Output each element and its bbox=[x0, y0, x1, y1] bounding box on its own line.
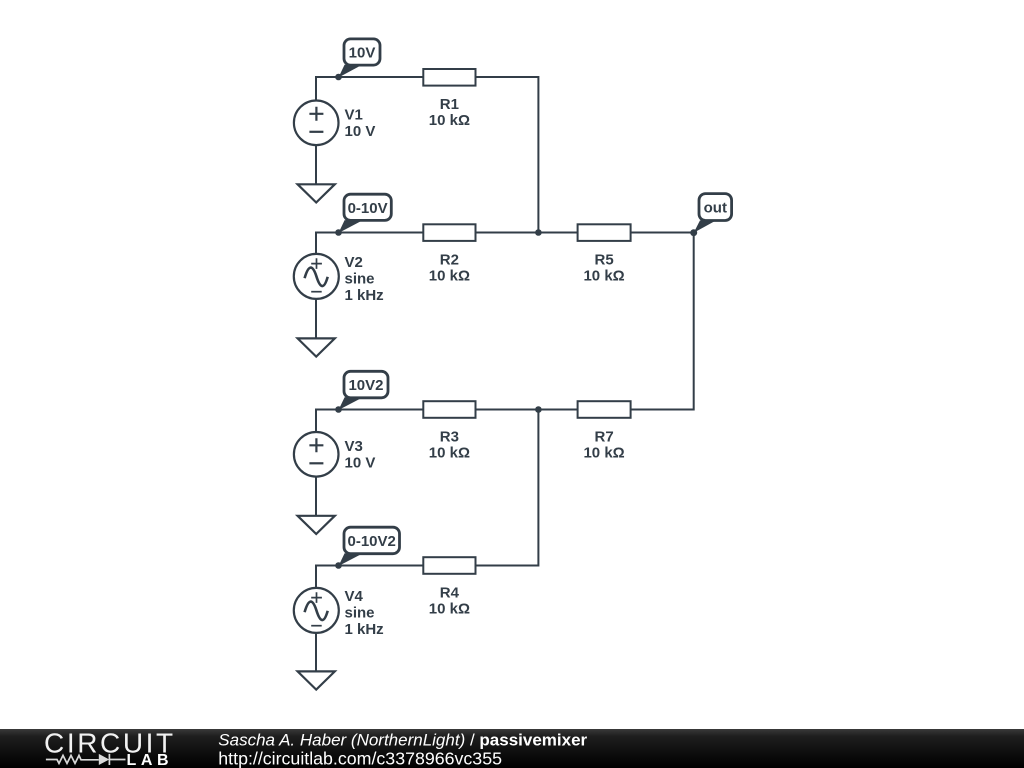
svg-text:0-10V2: 0-10V2 bbox=[348, 533, 396, 550]
voltage source V4 (sine) bbox=[294, 588, 384, 638]
node label 0-10V bbox=[339, 194, 392, 233]
svg-text:sine: sine bbox=[345, 605, 375, 622]
svg-text:10V: 10V bbox=[349, 45, 376, 62]
junction dot row2 bbox=[535, 229, 542, 236]
resistor R1 bbox=[423, 69, 475, 129]
ground below V2 bbox=[298, 299, 335, 357]
svg-text:10 kΩ: 10 kΩ bbox=[429, 601, 470, 618]
svg-text:V1: V1 bbox=[345, 106, 363, 123]
node dot 10V2 bbox=[335, 406, 342, 413]
wire R1 to node at row2 bbox=[476, 77, 539, 233]
svg-text:R3: R3 bbox=[440, 429, 459, 446]
svg-text:Sascha A. Haber (NorthernLight: Sascha A. Haber (NorthernLight) / passiv… bbox=[218, 730, 587, 749]
svg-text:10 kΩ: 10 kΩ bbox=[583, 268, 624, 285]
svg-text:10V2: 10V2 bbox=[348, 377, 383, 394]
svg-text:LAB: LAB bbox=[127, 752, 174, 768]
svg-text:10 kΩ: 10 kΩ bbox=[583, 445, 624, 462]
node dot 0-10V bbox=[335, 229, 342, 236]
svg-text:10 V: 10 V bbox=[345, 123, 376, 140]
svg-text:10 kΩ: 10 kΩ bbox=[429, 268, 470, 285]
svg-text:R2: R2 bbox=[440, 252, 459, 269]
node label 10V bbox=[339, 39, 381, 78]
wire V2 to R2 bbox=[316, 233, 423, 255]
node 10V junction dot bbox=[335, 74, 342, 81]
svg-text:sine: sine bbox=[345, 271, 375, 288]
voltage source V2 (sine) bbox=[294, 254, 384, 304]
svg-text:10 V: 10 V bbox=[345, 455, 376, 472]
footer bar bbox=[0, 729, 1024, 768]
out node dot bbox=[690, 229, 697, 236]
ground below V3 bbox=[298, 477, 335, 534]
node label 10V2 bbox=[339, 371, 389, 410]
voltage source V1 bbox=[294, 101, 375, 146]
svg-text:R4: R4 bbox=[440, 585, 460, 602]
svg-text:V4: V4 bbox=[345, 588, 364, 605]
resistor R4 bbox=[423, 557, 475, 617]
svg-text:0-10V: 0-10V bbox=[348, 200, 388, 217]
svg-text:10 kΩ: 10 kΩ bbox=[429, 112, 470, 129]
svg-text:1 kHz: 1 kHz bbox=[345, 621, 384, 638]
voltage source V3 bbox=[294, 432, 375, 477]
svg-text:V3: V3 bbox=[345, 438, 363, 455]
wire R4 up to junction row3 bbox=[476, 410, 539, 566]
svg-text:R1: R1 bbox=[440, 96, 459, 113]
wire R7 up to out node bbox=[631, 233, 694, 410]
svg-text:http://circuitlab.com/c3378966: http://circuitlab.com/c3378966vc355 bbox=[218, 749, 502, 768]
wire R5 to out node bbox=[631, 232, 694, 234]
svg-text:R5: R5 bbox=[595, 252, 614, 269]
node label 0-10V2 bbox=[339, 527, 400, 566]
svg-text:R7: R7 bbox=[595, 429, 614, 446]
wire R2 to R5 bbox=[476, 232, 578, 234]
node dot 0-10V2 bbox=[335, 562, 342, 569]
resistor R3 bbox=[423, 401, 475, 461]
resistor R5 bbox=[578, 224, 631, 284]
junction dot row3 bbox=[535, 406, 542, 413]
ground below V1 bbox=[298, 145, 335, 202]
node label out bbox=[694, 194, 732, 233]
logo resistor-diode glyph bbox=[46, 754, 126, 765]
svg-text:V2: V2 bbox=[345, 254, 363, 271]
wire V1 to R1 bbox=[316, 77, 423, 101]
svg-text:out: out bbox=[704, 200, 727, 217]
wire V4 to R4 bbox=[316, 566, 423, 588]
resistor R2 bbox=[423, 224, 475, 284]
wire R3 to R7 bbox=[476, 409, 578, 411]
resistor R7 bbox=[578, 401, 631, 461]
svg-text:1 kHz: 1 kHz bbox=[345, 287, 384, 304]
wire V3 to R3 bbox=[316, 410, 423, 432]
svg-text:10 kΩ: 10 kΩ bbox=[429, 445, 470, 462]
ground below V4 bbox=[298, 633, 335, 690]
